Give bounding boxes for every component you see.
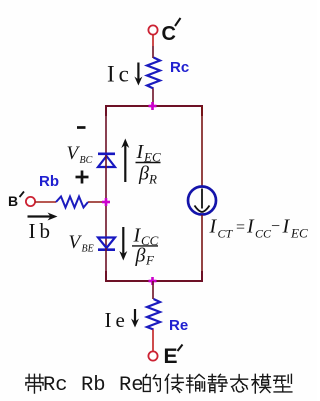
svg-text:β: β bbox=[135, 245, 146, 267]
svg-text:Ie: Ie bbox=[105, 308, 129, 332]
svg-text:Re: Re bbox=[119, 374, 144, 397]
char 型 bbox=[274, 374, 292, 392]
svg-text:CT: CT bbox=[218, 227, 234, 241]
label VBE bbox=[69, 232, 94, 255]
resistor Rc bbox=[147, 58, 160, 89]
svg-text:β: β bbox=[138, 163, 149, 185]
svg-text:EC: EC bbox=[290, 226, 308, 241]
label Rb bbox=[39, 173, 59, 190]
terminal E' bbox=[148, 351, 157, 360]
terminal B' bbox=[26, 197, 35, 206]
svg-text:E: E bbox=[164, 345, 178, 368]
arrow Ib (right) bbox=[28, 213, 58, 221]
resistor Re bbox=[147, 299, 160, 330]
terminal C' bbox=[148, 25, 157, 34]
svg-text:Rc: Rc bbox=[170, 59, 189, 76]
svg-text:F: F bbox=[145, 253, 155, 268]
label ICT = ICC - IEC bbox=[209, 216, 308, 241]
label Rc bbox=[170, 59, 189, 76]
svg-text:I: I bbox=[246, 216, 255, 238]
junction B node bbox=[102, 198, 110, 206]
minus sign (VBC polarity) bbox=[77, 126, 86, 129]
svg-text:I: I bbox=[209, 216, 218, 238]
label Ie bbox=[105, 308, 129, 332]
wire Rc to top rail bbox=[152, 89, 154, 107]
wire Rb to node bbox=[88, 201, 106, 203]
svg-text:=: = bbox=[236, 219, 245, 236]
char 态 bbox=[231, 375, 248, 392]
wire Re to E' bbox=[152, 330, 154, 352]
svg-text:C: C bbox=[162, 23, 176, 45]
label B' bbox=[8, 192, 24, 210]
svg-text:CC: CC bbox=[255, 227, 272, 241]
resistor Rb bbox=[56, 197, 88, 208]
svg-text:I: I bbox=[282, 216, 291, 238]
svg-text:Rb: Rb bbox=[81, 374, 106, 397]
label E' bbox=[164, 345, 183, 369]
wire bottom rail to Re bbox=[152, 281, 154, 299]
junction bottom bbox=[149, 277, 157, 285]
label C' bbox=[162, 18, 181, 45]
wire between diodes bbox=[105, 155, 107, 247]
svg-text:Ic: Ic bbox=[107, 62, 133, 87]
char 的 bbox=[143, 374, 160, 391]
arrow Ic (down) bbox=[134, 63, 142, 86]
arrow Ie (down) bbox=[131, 309, 139, 328]
arrow ICC/betaF (down) bbox=[119, 227, 127, 261]
svg-text:B: B bbox=[8, 193, 18, 209]
bottom rail bbox=[106, 271, 202, 281]
junction top bbox=[149, 102, 157, 110]
svg-text:BE: BE bbox=[82, 244, 94, 255]
svg-text:R: R bbox=[148, 172, 157, 187]
svg-text:Ib: Ib bbox=[29, 219, 55, 243]
label Re bbox=[169, 317, 188, 334]
label VBC bbox=[67, 143, 93, 166]
svg-text:Rb: Rb bbox=[39, 173, 59, 190]
svg-text:Rc: Rc bbox=[43, 374, 68, 397]
wire left branch upper bbox=[105, 106, 107, 156]
caption: 带Rc Rb Re的传输静态模型 bbox=[26, 374, 292, 397]
svg-text:V: V bbox=[67, 143, 81, 164]
diode VBE (cathode down) bbox=[98, 238, 115, 250]
plus sign (VBC polarity) bbox=[76, 171, 89, 184]
svg-text:BC: BC bbox=[80, 155, 93, 166]
char 静 bbox=[208, 374, 227, 392]
top rail bbox=[106, 106, 202, 116]
svg-text:Re: Re bbox=[169, 317, 188, 334]
char 模 bbox=[252, 374, 271, 393]
char 输 bbox=[186, 374, 204, 392]
char 传 bbox=[165, 374, 183, 393]
diode VBC (cathode up) bbox=[98, 154, 115, 167]
wire right branch upper bbox=[201, 106, 203, 186]
char 带 bbox=[26, 374, 43, 393]
label fraction ICC/betaF bbox=[132, 225, 159, 268]
arrow IEC/betaR (up) bbox=[121, 139, 129, 183]
wire C' to Rc bbox=[152, 35, 154, 58]
svg-text:V: V bbox=[69, 232, 83, 253]
caption text Rc Rb Re bbox=[43, 374, 144, 397]
current source ICT bbox=[188, 187, 216, 215]
label Ib bbox=[29, 219, 55, 243]
svg-text:−: − bbox=[271, 218, 280, 235]
wire right branch lower bbox=[201, 215, 203, 281]
wire B' to Rb bbox=[35, 201, 56, 203]
label fraction IEC/betaR bbox=[136, 141, 161, 187]
wire diode VBE to bottom rail bbox=[105, 248, 107, 281]
label Ic bbox=[107, 62, 133, 87]
